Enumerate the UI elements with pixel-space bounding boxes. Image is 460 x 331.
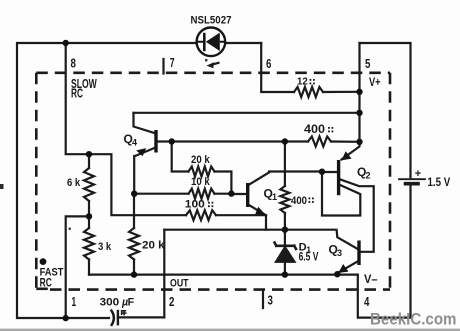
- svg-text:V–: V–: [364, 272, 378, 286]
- svg-text:10 k: 10 k: [191, 176, 211, 188]
- svg-text:2: 2: [366, 171, 371, 181]
- svg-text:6: 6: [266, 56, 271, 71]
- svg-text:7: 7: [170, 55, 175, 70]
- svg-text:4: 4: [132, 138, 137, 148]
- svg-text:1.5 V: 1.5 V: [428, 175, 451, 189]
- svg-text:12: 12: [297, 77, 308, 88]
- svg-text:+: +: [415, 168, 421, 180]
- svg-text:400: 400: [304, 122, 325, 136]
- svg-text:20 k: 20 k: [142, 239, 165, 251]
- svg-text:V+: V+: [369, 75, 381, 89]
- svg-text:20 k: 20 k: [191, 154, 211, 166]
- svg-text:1: 1: [72, 294, 77, 309]
- svg-text:RC: RC: [40, 277, 53, 290]
- svg-text:1: 1: [272, 192, 277, 202]
- svg-text:BeekIC.com: BeekIC.com: [370, 311, 457, 329]
- svg-text:4: 4: [364, 294, 370, 309]
- svg-text:F: F: [128, 296, 135, 308]
- svg-text:6.5 V: 6.5 V: [299, 251, 319, 264]
- svg-text:NSL5027: NSL5027: [191, 15, 232, 27]
- svg-text:3: 3: [337, 248, 342, 258]
- svg-text:6 k: 6 k: [67, 177, 81, 189]
- svg-text:2: 2: [169, 294, 174, 309]
- svg-text:400: 400: [291, 195, 307, 207]
- svg-text:OUT: OUT: [170, 277, 189, 289]
- svg-text:300: 300: [100, 296, 120, 308]
- svg-text:3: 3: [268, 293, 273, 308]
- svg-text:RC: RC: [71, 86, 83, 100]
- svg-text:5: 5: [365, 56, 370, 71]
- svg-text:8: 8: [71, 56, 76, 71]
- svg-text:3 k: 3 k: [98, 241, 112, 253]
- svg-text:100: 100: [185, 199, 205, 211]
